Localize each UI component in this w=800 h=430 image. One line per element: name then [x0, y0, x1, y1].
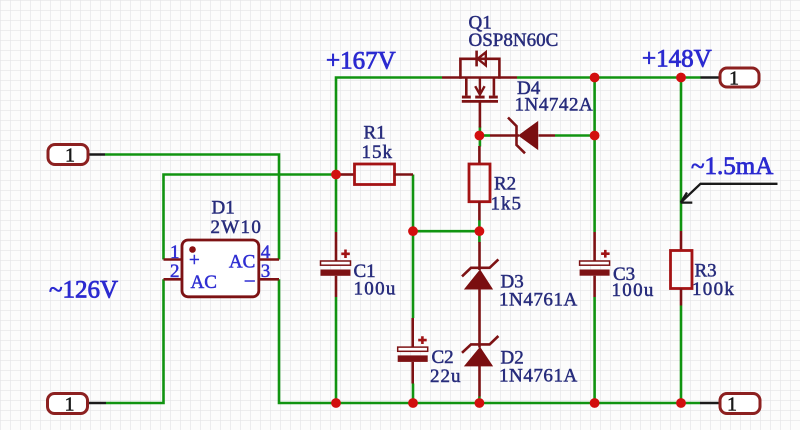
wire R2 bottom to D3 top — [478, 220, 481, 243]
capacitor C1 — [321, 232, 351, 297]
D1 pin 1 — [164, 258, 183, 261]
wire bridge pin3 down and GND rail — [279, 279, 700, 403]
svg-text:C2: C2 — [432, 347, 454, 368]
junction GND R3 — [676, 398, 686, 408]
wire port1-bottom to bridge pin2 — [106, 279, 164, 403]
wire mid node down to C2 — [412, 231, 415, 318]
D1 pin 4 — [259, 258, 279, 261]
wire R3 bottom to GND rail — [680, 306, 683, 404]
port 1 top-left — [48, 145, 105, 167]
svg-text:1: 1 — [729, 68, 739, 90]
junction R1 left node — [331, 170, 341, 180]
junction GND D2 — [475, 398, 485, 408]
resistor R1 — [340, 164, 413, 185]
svg-text:3: 3 — [261, 261, 271, 282]
junction D4 anode node — [590, 131, 600, 141]
capacitor C2 — [398, 318, 428, 384]
svg-text:–: – — [244, 270, 255, 291]
svg-text:+148V: +148V — [642, 46, 712, 73]
svg-text:100k: 100k — [692, 279, 735, 300]
junction +148V R3 node — [676, 73, 686, 83]
svg-text:+: + — [189, 250, 200, 271]
svg-text:D1: D1 — [212, 198, 235, 219]
wire C3 bottom to GND rail — [593, 297, 596, 403]
svg-text:1: 1 — [65, 145, 75, 167]
svg-text:1: 1 — [65, 394, 75, 416]
junction Q1 gate / D4 node — [475, 131, 485, 141]
svg-text:1: 1 — [727, 394, 737, 416]
zener diode D3 — [462, 242, 498, 348]
wire port1-top to bridge pin4 — [105, 155, 279, 260]
junction GND C2 — [408, 398, 418, 408]
zener diode D4 — [490, 118, 555, 154]
svg-text:~126V: ~126V — [49, 277, 118, 304]
junction GND C3 — [590, 398, 600, 408]
resistor R3 — [671, 231, 693, 306]
svg-text:2W10: 2W10 — [211, 217, 263, 238]
svg-text:1N4761A: 1N4761A — [499, 290, 578, 311]
wire bridge pin1 up to R1 row — [164, 175, 338, 260]
wire R1 right down to mid node — [412, 175, 415, 232]
svg-text:AC: AC — [191, 272, 217, 293]
svg-text:R1: R1 — [364, 123, 386, 144]
wire mid node row — [413, 230, 479, 233]
svg-text:100u: 100u — [612, 280, 655, 301]
junction mid node left — [408, 226, 418, 236]
wire C2 bottom to GND rail — [412, 384, 415, 404]
bridge rectifier D1 body — [182, 240, 259, 297]
svg-text:100u: 100u — [354, 279, 397, 300]
svg-text:+167V: +167V — [326, 48, 396, 75]
port 1 top-right — [701, 68, 760, 90]
wire D4 anode to C3 column — [555, 134, 595, 137]
svg-text:1N4742A: 1N4742A — [515, 95, 594, 116]
junction mid node right — [475, 226, 485, 236]
svg-text:22u: 22u — [430, 366, 462, 387]
wire +148V rail — [517, 76, 701, 79]
svg-text:~1.5mA: ~1.5mA — [691, 153, 773, 180]
svg-text:1: 1 — [170, 242, 180, 263]
port 1 bottom-left — [48, 394, 107, 416]
svg-text:1N4761A: 1N4761A — [499, 366, 578, 387]
wire C1 bottom to GND rail — [335, 297, 338, 403]
svg-text:4: 4 — [261, 242, 271, 263]
junction +148V C3 node — [590, 73, 600, 83]
svg-text:R2: R2 — [494, 174, 516, 195]
mosfet Q1 — [442, 51, 517, 128]
svg-text:15k: 15k — [362, 142, 394, 163]
wire D2 anode to GND rail — [478, 397, 481, 404]
capacitor C3 — [580, 232, 610, 297]
junction GND C1 — [331, 398, 341, 408]
current arrow annotation — [681, 184, 778, 203]
wire +167V rail and C1 column top — [336, 78, 442, 233]
wire R3 column top — [680, 78, 683, 232]
D1 pin 3 — [259, 278, 279, 281]
svg-text:1k5: 1k5 — [491, 194, 523, 215]
wire Q1 gate to node — [479, 127, 482, 147]
wire node to D4 cathode — [479, 134, 490, 137]
wire C3 column top — [593, 78, 596, 233]
zener diode D2 — [462, 336, 498, 397]
svg-text:2: 2 — [170, 261, 180, 282]
svg-text:OSP8N60C: OSP8N60C — [469, 30, 559, 51]
port 1 bottom-right — [700, 394, 760, 416]
resistor R2 — [469, 146, 490, 220]
D1 pin 2 — [164, 278, 183, 281]
